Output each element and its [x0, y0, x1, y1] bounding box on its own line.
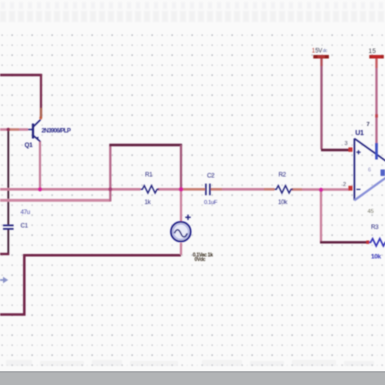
wire main horizontal net — [0, 188, 350, 191]
wire tint near C2 left — [184, 188, 206, 190]
wire C1 bottom stub — [0, 253, 9, 255]
wire top-left horizontal — [0, 74, 42, 76]
wire base — [0, 128, 28, 131]
pin end R3 left — [366, 241, 369, 244]
node R1 output junction — [179, 187, 183, 191]
svg-text:R1: R1 — [145, 171, 153, 178]
wire tint near R2 left — [264, 188, 275, 190]
wire V1 return loop — [0, 255, 181, 314]
resistor R3 — [369, 239, 385, 246]
svg-text:45: 45 — [368, 209, 374, 215]
power symbol V+ right — [369, 55, 384, 59]
svg-text:0.1uF: 0.1uF — [204, 200, 218, 206]
wire emitter lead — [39, 141, 41, 189]
wire V+ supply — [320, 58, 322, 149]
svg-text:5V: 5V — [315, 49, 322, 55]
left edge arrow connector — [0, 277, 8, 283]
wire bypass vertical left — [109, 146, 111, 202]
transistor Q1 — [28, 120, 41, 142]
svg-text:R3: R3 — [371, 224, 379, 231]
svg-text:C2: C2 — [207, 173, 215, 180]
svg-text:15: 15 — [369, 48, 377, 55]
wire feedback vertical — [320, 190, 322, 242]
node feedback junction — [319, 188, 323, 192]
wire V+ pin7 supply — [375, 58, 377, 147]
node emitter junction — [38, 187, 42, 191]
wire bypass top — [109, 144, 182, 147]
svg-text:2: 2 — [343, 182, 346, 188]
svg-text:R2: R2 — [279, 171, 287, 178]
wire collector vertical — [40, 74, 42, 118]
svg-text:10k: 10k — [371, 253, 382, 260]
pin end Q1 collector — [39, 117, 42, 120]
svg-text:47u: 47u — [21, 209, 31, 216]
wire feedback bottom — [320, 241, 367, 243]
op-amp U1 — [354, 139, 385, 201]
node base junction — [7, 128, 10, 131]
svg-text:C1: C1 — [21, 223, 29, 230]
wire V1 top lead — [180, 189, 182, 222]
wire bypass right vertical — [180, 145, 182, 189]
source V1 — [171, 215, 191, 242]
wire pin3 horizontal — [321, 149, 350, 151]
node bypass crossing — [108, 187, 112, 191]
svg-text:2N3906/PLP: 2N3906/PLP — [42, 128, 71, 134]
pin end U1 pin3 — [348, 147, 352, 151]
resistor R1 — [141, 186, 159, 193]
wire tint near C2 right — [211, 188, 222, 190]
pin OUT blue mark — [381, 170, 385, 176]
status bar — [0, 371, 385, 385]
svg-text:U1: U1 — [355, 130, 364, 137]
wire second horizontal net — [0, 199, 110, 202]
wire tint supply tops — [320, 59, 322, 67]
pin end U1 pin7 — [375, 114, 378, 117]
wire V1 bottom lead — [180, 243, 182, 255]
wire C1 branch vertical — [7, 129, 9, 253]
svg-text:Q1: Q1 — [25, 142, 34, 149]
faint status text — [6, 360, 374, 366]
power symbol V+ left — [313, 55, 329, 59]
svg-text:7: 7 — [367, 122, 370, 128]
wire tint base — [10, 128, 20, 130]
wire tint collector pin — [40, 108, 42, 118]
faint toolbar remnant band — [0, 2, 385, 23]
svg-text:0Vdc: 0Vdc — [195, 257, 206, 263]
svg-text:3: 3 — [345, 141, 348, 147]
capacitor C1 — [3, 225, 14, 229]
svg-text:10k: 10k — [278, 199, 288, 206]
pin end U1 pin2 — [348, 186, 352, 191]
capacitor C2 — [206, 184, 210, 196]
wire tint near R2 right — [292, 188, 303, 190]
svg-text:6: 6 — [368, 168, 371, 174]
resistor R2 — [275, 186, 293, 193]
